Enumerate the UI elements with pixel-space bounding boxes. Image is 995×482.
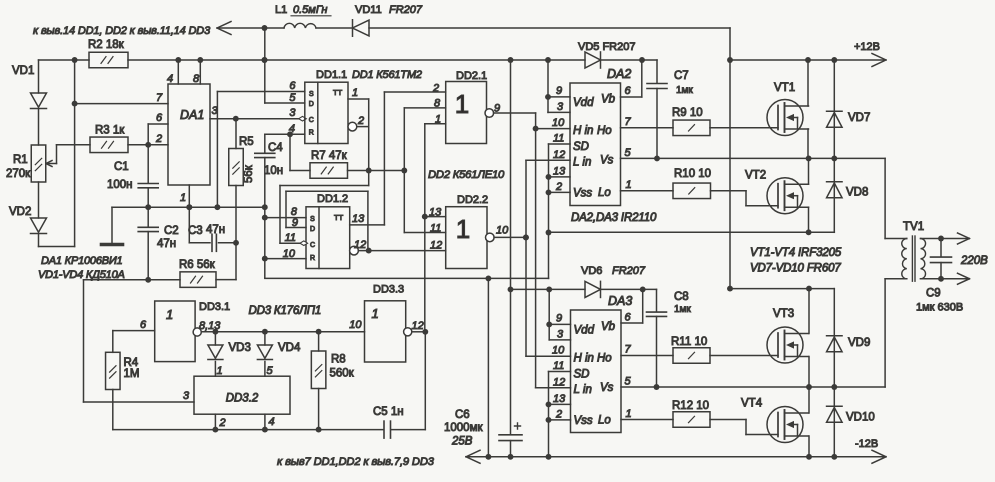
svg-text:Vb: Vb (601, 321, 616, 333)
svg-text:47н: 47н (157, 238, 176, 250)
svg-text:H in: H in (574, 353, 594, 365)
svg-text:9: 9 (292, 217, 298, 229)
svg-text:Lo: Lo (598, 187, 611, 199)
svg-text:12: 12 (553, 377, 565, 389)
svg-text:VD1: VD1 (12, 65, 34, 77)
svg-text:VD11: VD11 (355, 4, 382, 16)
svg-text:DA2,DA3 IR2110: DA2,DA3 IR2110 (571, 212, 657, 224)
svg-text:DD1.2: DD1.2 (317, 193, 348, 205)
svg-text:2: 2 (555, 409, 562, 421)
svg-text:C7: C7 (674, 70, 689, 82)
svg-text:13: 13 (553, 166, 566, 178)
svg-text:1: 1 (626, 179, 632, 191)
svg-text:DA1 КР1006ВИ1: DA1 КР1006ВИ1 (41, 255, 123, 267)
svg-text:56к: 56к (243, 164, 255, 183)
svg-text:VT1-VT4 IRF3205: VT1-VT4 IRF3205 (750, 247, 842, 259)
svg-text:C9: C9 (926, 288, 941, 300)
svg-text:TV1: TV1 (903, 221, 924, 233)
svg-text:С4: С4 (268, 142, 283, 154)
svg-text:SD: SD (574, 369, 590, 381)
svg-text:1: 1 (372, 306, 379, 321)
svg-text:Vss: Vss (574, 415, 593, 427)
svg-text:DA1: DA1 (180, 108, 204, 122)
svg-text:DD1 К561ТМ2: DD1 К561ТМ2 (352, 69, 422, 81)
svg-text:L in: L in (574, 384, 592, 396)
svg-text:6: 6 (140, 319, 147, 331)
svg-text:DD3.1: DD3.1 (199, 301, 230, 313)
svg-text:VD6: VD6 (581, 265, 602, 277)
svg-text:DD3.2: DD3.2 (226, 393, 259, 405)
svg-text:25В: 25В (451, 436, 473, 448)
svg-text:5: 5 (625, 147, 632, 159)
svg-text:4: 4 (289, 123, 295, 135)
svg-text:-12В: -12В (855, 438, 878, 450)
svg-text:1мк: 1мк (676, 85, 693, 96)
svg-text:2: 2 (219, 417, 226, 429)
svg-text:VT4: VT4 (741, 398, 763, 410)
svg-text:VD10: VD10 (846, 412, 875, 424)
svg-text:VD2: VD2 (9, 206, 31, 218)
svg-text:2: 2 (155, 133, 162, 145)
svg-text:11: 11 (553, 360, 564, 372)
svg-text:к выв.14 DD1, DD2 к выв.11,14: к выв.14 DD1, DD2 к выв.11,14 DD3 (33, 25, 211, 37)
svg-text:R12 10: R12 10 (672, 400, 709, 412)
svg-text:6: 6 (289, 80, 296, 92)
svg-text:10: 10 (283, 248, 296, 260)
svg-text:3: 3 (557, 101, 564, 113)
svg-text:2: 2 (357, 115, 364, 127)
svg-text:S: S (310, 216, 315, 223)
svg-text:DD3 К176ЛП1: DD3 К176ЛП1 (249, 305, 322, 317)
svg-text:4: 4 (269, 416, 275, 428)
svg-text:ТТ: ТТ (334, 213, 344, 222)
svg-text:Vdd: Vdd (574, 325, 595, 337)
svg-text:Ho: Ho (597, 125, 612, 137)
svg-text:VD5 FR207: VD5 FR207 (578, 41, 635, 53)
svg-text:8,13: 8,13 (199, 320, 221, 332)
svg-text:R8: R8 (331, 354, 346, 366)
svg-text:1: 1 (435, 114, 441, 126)
svg-text:8: 8 (434, 98, 441, 110)
svg-text:R: R (310, 255, 315, 262)
svg-text:Vs: Vs (600, 155, 614, 167)
svg-text:11: 11 (430, 223, 441, 235)
svg-text:VT1: VT1 (774, 82, 795, 94)
svg-text:1мк: 1мк (674, 304, 691, 315)
svg-text:9: 9 (556, 85, 562, 97)
svg-text:R11 10: R11 10 (671, 336, 707, 348)
svg-text:6: 6 (156, 112, 163, 124)
svg-text:S: S (309, 91, 314, 98)
svg-text:H in: H in (573, 125, 593, 137)
svg-text:R1: R1 (13, 154, 28, 166)
svg-text:R10 10: R10 10 (674, 168, 711, 180)
svg-text:8: 8 (193, 73, 200, 85)
svg-text:1M: 1M (124, 368, 140, 380)
svg-text:DA2: DA2 (607, 67, 631, 81)
svg-text:10: 10 (496, 225, 509, 237)
svg-text:5: 5 (267, 365, 274, 377)
svg-text:7: 7 (156, 92, 163, 104)
svg-text:R5: R5 (239, 136, 254, 148)
svg-text:Vdd: Vdd (573, 97, 594, 109)
svg-text:DA3: DA3 (608, 294, 632, 308)
svg-text:Vs: Vs (600, 382, 614, 394)
svg-text:VT2: VT2 (745, 170, 766, 182)
svg-text:DD1.1: DD1.1 (316, 69, 347, 81)
svg-text:DD2 К561ЛЕ10: DD2 К561ЛЕ10 (428, 169, 505, 181)
svg-text:12: 12 (430, 240, 442, 252)
svg-text:3: 3 (289, 107, 296, 119)
svg-text:+12В: +12В (854, 41, 880, 53)
svg-text:R9 10: R9 10 (672, 107, 703, 119)
svg-text:R3 1к: R3 1к (95, 125, 125, 137)
svg-text:220В: 220В (960, 255, 988, 267)
svg-text:12: 12 (412, 320, 424, 332)
svg-text:R7 47к: R7 47к (311, 150, 348, 162)
svg-text:C: C (310, 242, 315, 249)
svg-text:560к: 560к (330, 368, 355, 380)
svg-text:1: 1 (352, 87, 358, 99)
svg-text:11: 11 (553, 133, 564, 145)
svg-text:VD8: VD8 (846, 187, 868, 199)
svg-text:Vb: Vb (601, 94, 616, 106)
svg-text:11: 11 (285, 232, 296, 244)
svg-text:7: 7 (625, 116, 632, 128)
svg-text:R2 18к: R2 18к (88, 39, 125, 51)
svg-text:2: 2 (432, 83, 439, 95)
svg-text:4: 4 (167, 73, 173, 85)
svg-text:3: 3 (183, 390, 190, 402)
svg-text:DD2.1: DD2.1 (456, 70, 487, 82)
svg-text:47н: 47н (206, 224, 225, 236)
svg-text:D: D (310, 226, 315, 233)
svg-text:10: 10 (552, 345, 565, 357)
svg-text:12: 12 (553, 149, 565, 161)
svg-text:1: 1 (456, 214, 470, 244)
svg-text:1: 1 (180, 192, 186, 204)
svg-text:3: 3 (557, 329, 564, 341)
svg-text:С1: С1 (114, 161, 129, 173)
svg-text:10н: 10н (264, 165, 283, 177)
svg-text:0.5мГн: 0.5мГн (293, 4, 327, 16)
svg-text:C8: C8 (674, 291, 689, 303)
svg-text:10: 10 (349, 319, 362, 331)
svg-text:13: 13 (553, 393, 566, 405)
svg-text:VD9: VD9 (848, 337, 870, 349)
svg-text:9: 9 (556, 313, 562, 325)
svg-text:5: 5 (625, 376, 632, 388)
svg-text:VD4: VD4 (278, 342, 301, 354)
svg-text:270к: 270к (6, 168, 31, 180)
svg-text:2: 2 (555, 181, 562, 193)
svg-text:9: 9 (494, 103, 500, 115)
svg-text:DD3.3: DD3.3 (373, 284, 404, 296)
svg-text:VT3: VT3 (773, 308, 794, 320)
svg-text:R: R (309, 130, 314, 137)
svg-text:FR207: FR207 (389, 4, 423, 16)
svg-text:Ho: Ho (597, 353, 612, 365)
svg-text:Vss: Vss (573, 188, 592, 200)
svg-text:VD7: VD7 (848, 112, 870, 124)
svg-text:13: 13 (352, 213, 365, 225)
svg-text:С2: С2 (164, 225, 179, 237)
svg-text:5: 5 (289, 92, 296, 104)
svg-text:SD: SD (573, 141, 589, 153)
svg-text:1мк 630В: 1мк 630В (916, 302, 963, 314)
svg-text:D: D (309, 101, 314, 108)
svg-text:10: 10 (552, 117, 565, 129)
svg-text:R6 56к: R6 56к (179, 259, 216, 271)
svg-text:6: 6 (625, 312, 632, 324)
svg-text:к выв7 DD1,DD2 к выв.7,9 DD3: к выв7 DD1,DD2 к выв.7,9 DD3 (277, 456, 435, 468)
svg-text:1: 1 (166, 307, 173, 322)
svg-text:C: C (309, 117, 314, 124)
svg-text:12: 12 (354, 239, 366, 251)
svg-text:VD3: VD3 (229, 342, 251, 354)
svg-text:DD2.2: DD2.2 (457, 194, 488, 206)
svg-text:L in: L in (573, 157, 591, 169)
svg-text:L1: L1 (275, 4, 287, 16)
svg-text:1: 1 (626, 408, 632, 420)
svg-text:C5 1н: C5 1н (373, 406, 404, 418)
svg-text:С3: С3 (188, 225, 203, 237)
svg-text:1000мк: 1000мк (444, 422, 483, 434)
svg-text:ТТ: ТТ (333, 88, 343, 97)
svg-text:FR207: FR207 (612, 265, 646, 277)
svg-text:С6: С6 (455, 409, 470, 421)
svg-text:7: 7 (625, 344, 632, 356)
svg-text:6: 6 (625, 85, 632, 97)
svg-text:VD7-VD10 FR607: VD7-VD10 FR607 (750, 263, 841, 275)
svg-text:Lo: Lo (598, 415, 611, 427)
svg-text:1: 1 (217, 365, 223, 377)
svg-text:1: 1 (455, 89, 469, 119)
svg-text:100н: 100н (107, 179, 133, 191)
